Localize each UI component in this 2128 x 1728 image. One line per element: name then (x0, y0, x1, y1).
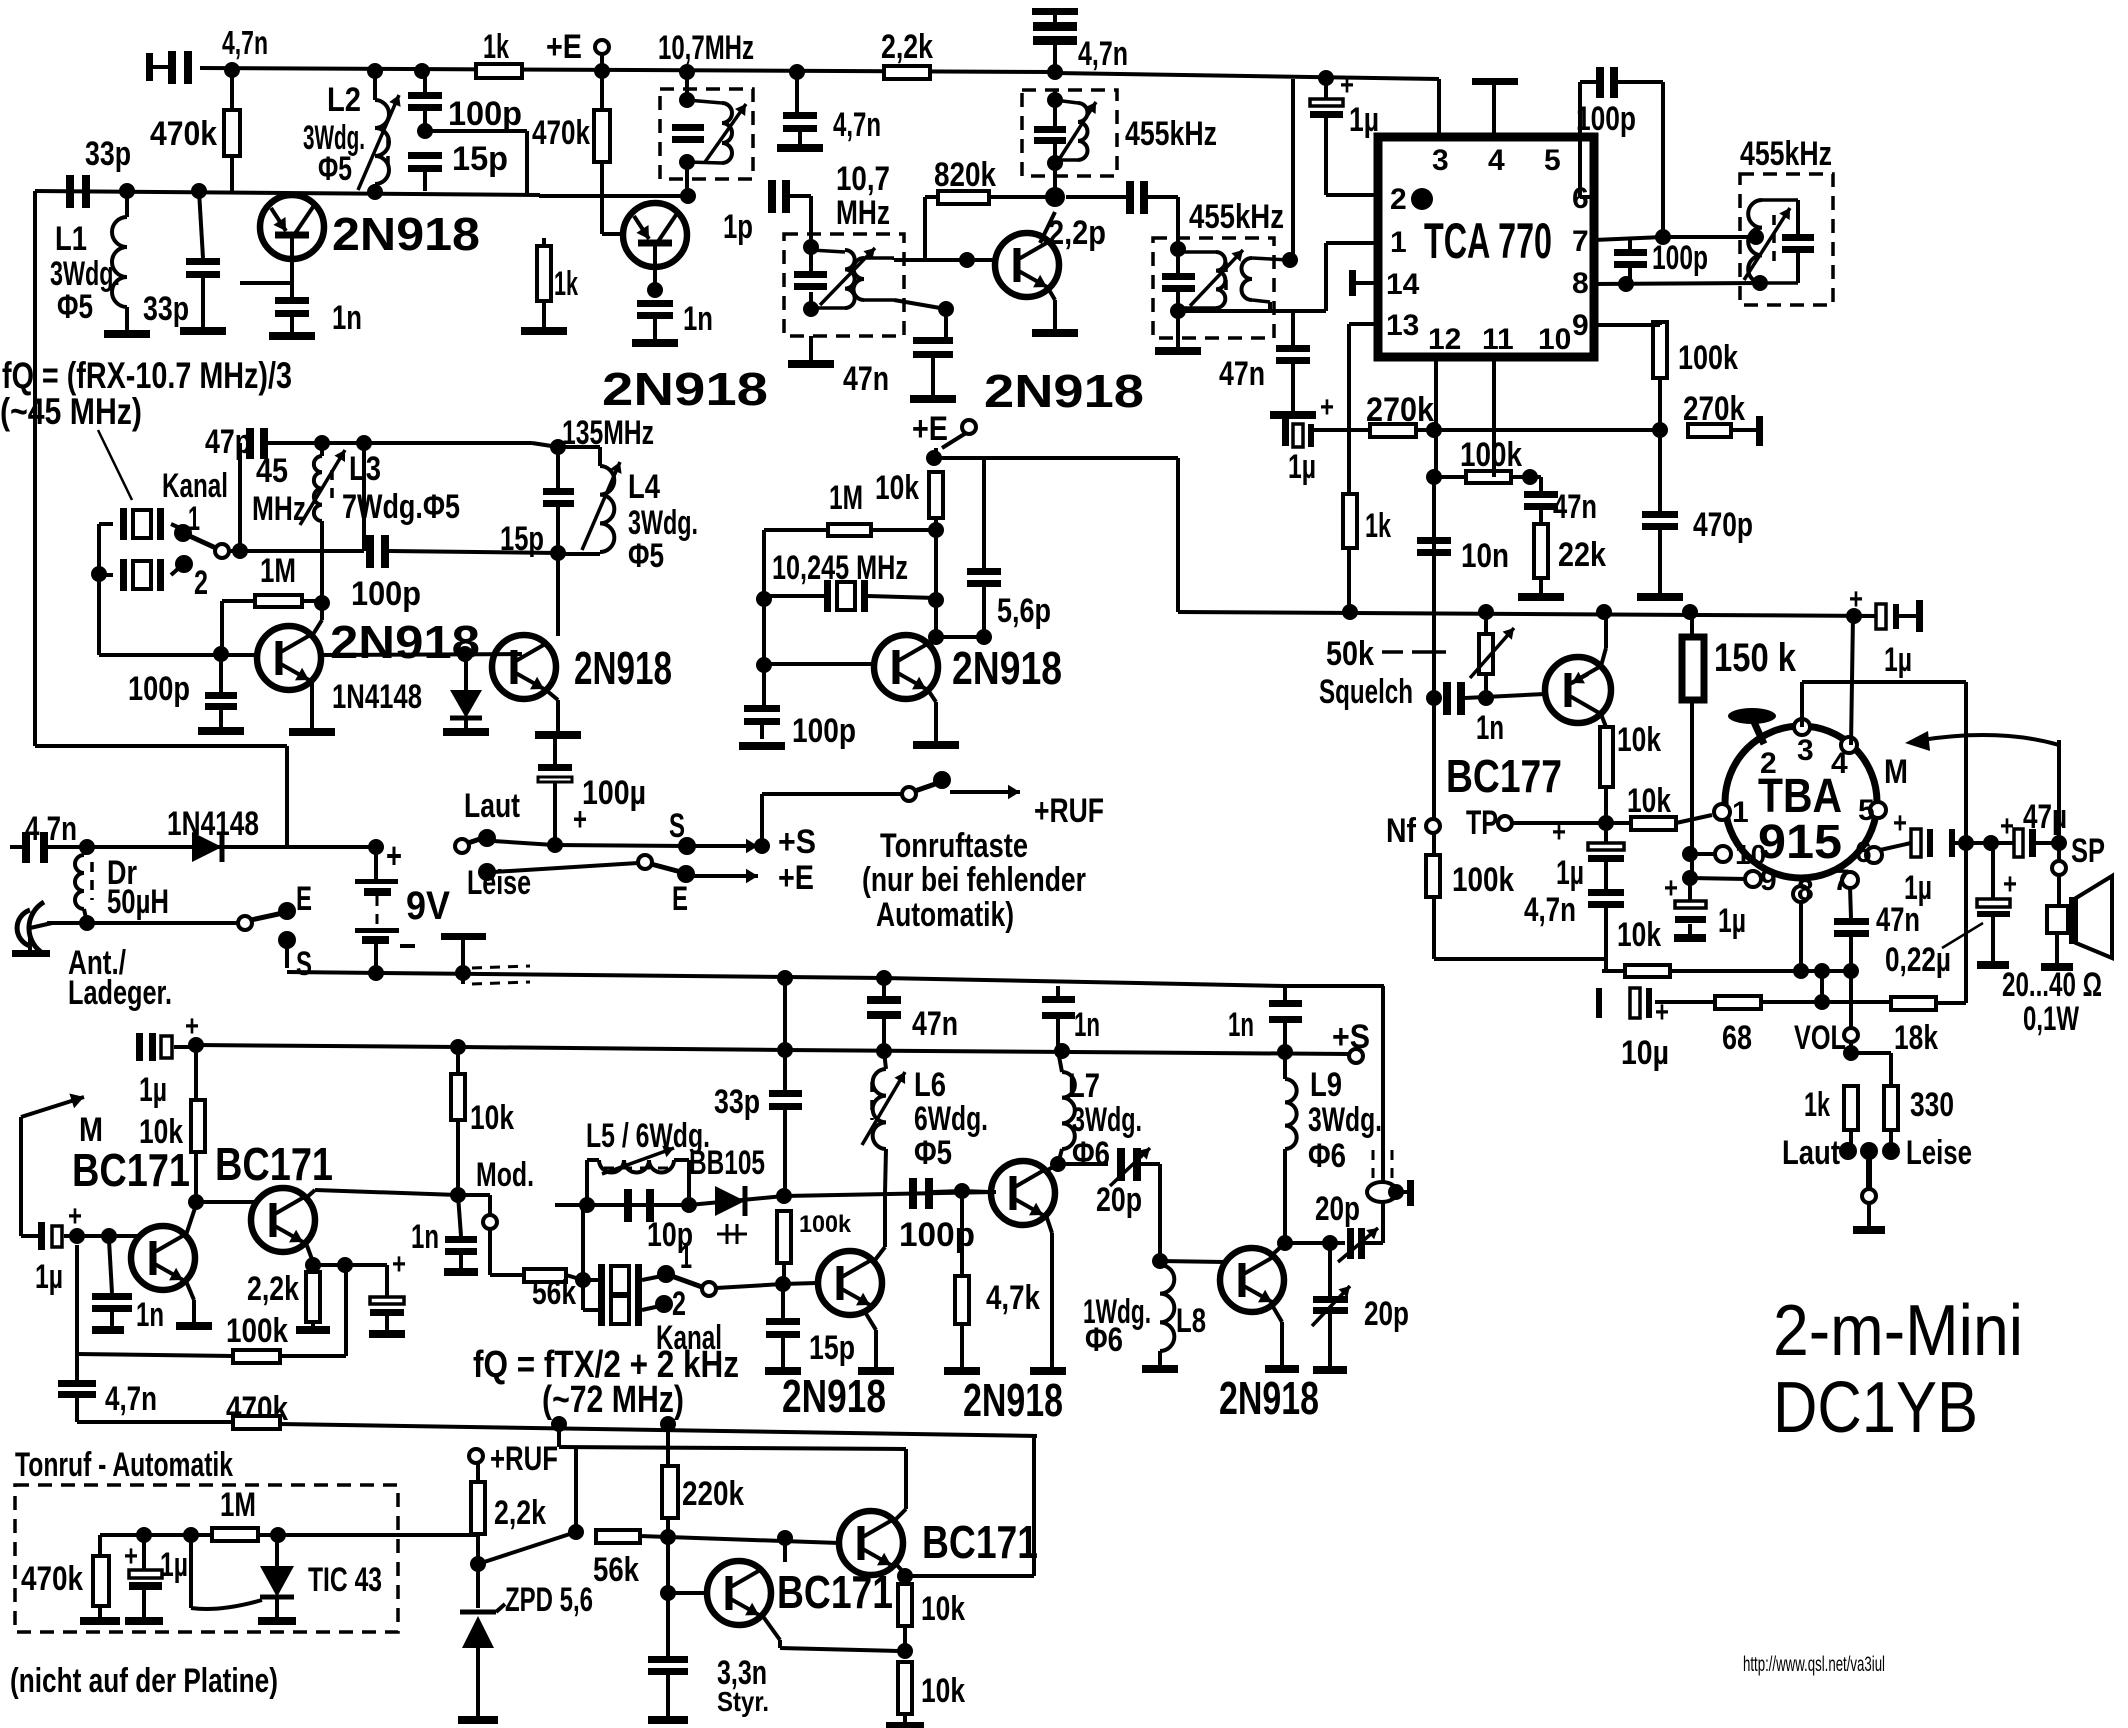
svg-text:+E: +E (778, 859, 814, 897)
svg-text:13: 13 (1386, 309, 1419, 342)
svg-text:0,1W: 0,1W (2023, 1000, 2080, 1038)
svg-text:Φ5: Φ5 (628, 537, 664, 575)
svg-text:1n: 1n (1074, 1006, 1100, 1044)
svg-text:fQ = (fRX-10.7 MHz)/3: fQ = (fRX-10.7 MHz)/3 (2, 355, 292, 396)
svg-text:(~45 MHz): (~45 MHz) (0, 391, 142, 432)
svg-text:20...40 Ω: 20...40 Ω (2002, 966, 2102, 1004)
svg-text:+E: +E (912, 410, 948, 448)
svg-text:1µ: 1µ (1556, 854, 1584, 892)
svg-text:9: 9 (1760, 864, 1777, 897)
svg-text:22k: 22k (1558, 536, 1606, 574)
svg-text:3Wdg.: 3Wdg. (1072, 1101, 1142, 1139)
svg-text:20p: 20p (1364, 1295, 1409, 1333)
svg-text:1n: 1n (1476, 709, 1504, 747)
svg-text:+: + (1893, 807, 1907, 840)
svg-text:100p: 100p (448, 95, 522, 133)
svg-text:TCA 770: TCA 770 (1424, 213, 1552, 269)
svg-text:2N918: 2N918 (1219, 1372, 1319, 1424)
svg-text:5: 5 (1858, 794, 1875, 827)
svg-text:47n: 47n (912, 1005, 958, 1043)
svg-text:5,6p: 5,6p (997, 592, 1051, 630)
svg-text:L1: L1 (55, 220, 87, 258)
svg-text:(nur bei fehlender: (nur bei fehlender (862, 861, 1086, 899)
svg-text:10k: 10k (875, 469, 919, 507)
svg-text:5: 5 (1544, 144, 1561, 177)
svg-text:150 k: 150 k (1714, 636, 1797, 680)
svg-text:20p: 20p (1315, 1190, 1360, 1228)
svg-text:2,2k: 2,2k (881, 28, 933, 66)
svg-text:http://www.qsl.net/va3iul: http://www.qsl.net/va3iul (1743, 1653, 1885, 1676)
svg-text:+S: +S (1332, 1018, 1370, 1056)
svg-text:Automatik): Automatik) (876, 896, 1014, 934)
svg-text:MHz: MHz (836, 194, 890, 232)
svg-text:3Wdg.: 3Wdg. (1308, 1101, 1382, 1139)
svg-text:6: 6 (1855, 836, 1872, 869)
svg-text:L4: L4 (628, 468, 660, 506)
svg-text:10: 10 (1538, 323, 1571, 356)
svg-text:1: 1 (1732, 796, 1749, 829)
svg-text:+: + (2003, 868, 2017, 901)
svg-text:1n: 1n (411, 1218, 439, 1256)
svg-text:Φ5: Φ5 (914, 1134, 952, 1172)
svg-text:TP: TP (1466, 804, 1498, 842)
svg-text:12: 12 (1428, 323, 1461, 356)
svg-text:1k: 1k (1804, 1086, 1830, 1124)
svg-text:2N918: 2N918 (332, 208, 480, 260)
svg-text:E: E (296, 880, 312, 918)
svg-text:45: 45 (256, 452, 288, 490)
svg-text:2N918: 2N918 (984, 365, 1144, 417)
svg-text:6Wdg.: 6Wdg. (914, 1100, 988, 1138)
svg-text:1µ: 1µ (35, 1258, 63, 1296)
svg-text:1N4148: 1N4148 (167, 805, 259, 843)
svg-text:(~72 MHz): (~72 MHz) (542, 1379, 684, 1421)
svg-text:1n: 1n (136, 1296, 164, 1334)
svg-text:33p: 33p (85, 135, 131, 173)
svg-text:+: + (1320, 391, 1334, 424)
svg-text:1µ: 1µ (160, 1546, 188, 1584)
svg-text:1M: 1M (829, 479, 863, 517)
svg-text:1p: 1p (723, 208, 753, 246)
svg-text:Laut: Laut (1782, 1134, 1840, 1172)
svg-text:2N918: 2N918 (963, 1374, 1063, 1426)
svg-text:4,7k: 4,7k (986, 1279, 1040, 1317)
svg-text:2,2k: 2,2k (247, 1270, 299, 1308)
svg-text:Φ6: Φ6 (1072, 1135, 1110, 1173)
svg-text:Φ6: Φ6 (1308, 1137, 1346, 1175)
svg-text:Styr.: Styr. (717, 1686, 769, 1717)
svg-text:4: 4 (1831, 747, 1848, 780)
svg-text:BC171: BC171 (215, 1138, 333, 1190)
svg-text:1k: 1k (483, 28, 509, 66)
svg-text:7Wdg.Φ5: 7Wdg.Φ5 (342, 488, 460, 526)
svg-text:+: + (1340, 69, 1354, 102)
svg-text:1µ: 1µ (139, 1071, 167, 1109)
svg-text:9: 9 (1572, 309, 1589, 342)
svg-text:10n: 10n (1461, 537, 1509, 575)
svg-text:33p: 33p (714, 1083, 760, 1121)
svg-text:Ladeger.: Ladeger. (68, 974, 172, 1012)
svg-text:BC171: BC171 (72, 1144, 190, 1196)
svg-text:100p: 100p (1576, 100, 1636, 138)
svg-text:+S: +S (778, 823, 816, 861)
svg-text:1M: 1M (260, 552, 296, 590)
svg-text:E: E (672, 880, 688, 918)
svg-text:33p: 33p (143, 290, 189, 328)
svg-text:1k: 1k (554, 265, 578, 303)
svg-text:15p: 15p (809, 1329, 855, 1367)
svg-text:1n: 1n (683, 300, 713, 338)
svg-text:455kHz: 455kHz (1125, 115, 1217, 153)
svg-text:L8: L8 (1176, 1302, 1206, 1340)
svg-text:4,7n: 4,7n (1524, 891, 1576, 929)
svg-text:10k: 10k (1617, 916, 1661, 954)
svg-text:1µ: 1µ (1718, 902, 1746, 940)
svg-text:100k: 100k (1452, 861, 1514, 899)
svg-text:Leise: Leise (1906, 1134, 1972, 1172)
svg-text:1: 1 (1390, 226, 1407, 259)
svg-text:50µH: 50µH (107, 883, 169, 921)
svg-text:MHz: MHz (252, 490, 306, 528)
svg-text:1n: 1n (1228, 1006, 1254, 1044)
svg-text:4: 4 (1488, 144, 1505, 177)
svg-text:2N918: 2N918 (330, 616, 480, 668)
svg-text:10µ: 10µ (1621, 1034, 1669, 1072)
svg-text:100k: 100k (799, 1211, 852, 1238)
svg-text:1n: 1n (332, 299, 362, 337)
svg-text:47n: 47n (843, 360, 889, 398)
svg-text:4,7n: 4,7n (1078, 35, 1128, 73)
svg-text:4,7n: 4,7n (222, 24, 268, 61)
svg-text:2,2p: 2,2p (1048, 214, 1106, 252)
svg-text:0,22µ: 0,22µ (1885, 941, 1951, 979)
svg-text:BB105: BB105 (689, 1144, 765, 1182)
svg-text:100p: 100p (351, 575, 421, 613)
svg-text:100p: 100p (792, 712, 856, 750)
svg-text:Nf: Nf (1386, 812, 1417, 850)
svg-text:20p: 20p (1096, 1181, 1142, 1219)
svg-text:100p: 100p (128, 670, 190, 708)
svg-text:+RUF: +RUF (1034, 792, 1104, 830)
svg-text:7: 7 (1572, 225, 1589, 258)
svg-text:100µ: 100µ (582, 774, 646, 812)
svg-text:TIC 43: TIC 43 (308, 1561, 382, 1599)
svg-text:470k: 470k (21, 1560, 83, 1598)
svg-text:Squelch: Squelch (1319, 673, 1413, 711)
svg-text:10,7MHz: 10,7MHz (658, 29, 754, 67)
svg-text:S: S (296, 945, 312, 983)
svg-text:Mod.: Mod. (476, 1156, 534, 1194)
svg-text:DC1YB: DC1YB (1773, 1368, 1978, 1448)
svg-text:2: 2 (1760, 747, 1777, 780)
svg-text:10,7: 10,7 (836, 160, 890, 198)
svg-text:1µ: 1µ (1288, 448, 1316, 486)
svg-text:1N4148: 1N4148 (332, 678, 422, 716)
svg-text:BC177: BC177 (1446, 750, 1562, 802)
svg-text:+: + (1655, 996, 1669, 1029)
svg-text:L6: L6 (914, 1066, 946, 1104)
svg-text:47n: 47n (1553, 488, 1597, 526)
svg-text:220k: 220k (682, 1475, 744, 1513)
svg-text:ZPD 5,6: ZPD 5,6 (505, 1581, 593, 1619)
svg-text:68: 68 (1722, 1019, 1752, 1057)
svg-text:4,7n: 4,7n (25, 810, 77, 848)
svg-text:+: + (2000, 810, 2014, 843)
svg-text:L3: L3 (349, 450, 381, 488)
svg-text:1k: 1k (1365, 507, 1391, 545)
svg-text:+: + (386, 835, 402, 876)
svg-text:Φ5: Φ5 (57, 288, 93, 326)
svg-text:1M: 1M (220, 1486, 256, 1524)
svg-text:2-m-Mini: 2-m-Mini (1773, 1291, 2023, 1371)
svg-text:47p: 47p (205, 423, 251, 461)
svg-text:56k: 56k (532, 1274, 576, 1312)
svg-text:1µ: 1µ (1884, 641, 1912, 679)
svg-text:Tonruftaste: Tonruftaste (880, 827, 1028, 865)
svg-text:2: 2 (194, 564, 208, 602)
svg-text:10k: 10k (1627, 782, 1671, 820)
svg-text:10k: 10k (921, 1672, 965, 1710)
svg-text:(nicht auf der Platine): (nicht auf der Platine) (10, 1662, 278, 1700)
svg-text:100p: 100p (1652, 239, 1708, 277)
svg-text:7: 7 (1833, 864, 1850, 897)
svg-text:470k: 470k (150, 115, 217, 153)
svg-text:18k: 18k (1894, 1019, 1938, 1057)
svg-text:8: 8 (1572, 267, 1589, 300)
svg-text:4,7n: 4,7n (833, 106, 881, 144)
svg-text:+: + (1552, 816, 1566, 849)
svg-text:SP: SP (2071, 832, 2105, 870)
svg-text:15p: 15p (452, 140, 508, 178)
svg-text:56k: 56k (593, 1551, 639, 1589)
svg-text:VOL: VOL (1794, 1019, 1846, 1057)
svg-text:455kHz: 455kHz (1740, 135, 1832, 173)
svg-text:+: + (392, 1248, 406, 1281)
svg-text:1: 1 (680, 1238, 692, 1276)
svg-text:100k: 100k (1678, 339, 1738, 377)
svg-text:915: 915 (1758, 816, 1842, 869)
svg-text:15p: 15p (500, 520, 544, 558)
svg-text:820k: 820k (934, 156, 996, 194)
svg-text:2N918: 2N918 (602, 363, 768, 415)
svg-text:3: 3 (1432, 144, 1449, 177)
svg-text:10k: 10k (921, 1590, 965, 1628)
svg-text:M: M (1884, 753, 1908, 791)
svg-text:4,7n: 4,7n (105, 1380, 157, 1418)
svg-text:100k: 100k (226, 1312, 288, 1350)
svg-text:Tonruf - Automatik: Tonruf - Automatik (15, 1446, 233, 1484)
svg-text:2: 2 (1390, 183, 1407, 216)
svg-text:10k: 10k (470, 1099, 514, 1137)
svg-text:2: 2 (672, 1285, 686, 1323)
svg-text:Φ5: Φ5 (318, 150, 352, 188)
svg-text:10k: 10k (1617, 721, 1661, 759)
svg-text:+RUF: +RUF (490, 1440, 558, 1478)
svg-text:9V: 9V (406, 884, 450, 928)
svg-text:L9: L9 (1310, 1066, 1342, 1104)
svg-text:2N918: 2N918 (952, 642, 1062, 694)
svg-text:+: + (1849, 583, 1863, 616)
svg-text:100k: 100k (1460, 436, 1522, 474)
svg-text:+: + (124, 1540, 138, 1573)
svg-text:L2: L2 (327, 81, 361, 119)
svg-text:2N918: 2N918 (574, 642, 672, 694)
svg-text:Φ6: Φ6 (1085, 1321, 1123, 1359)
svg-text:50k: 50k (1326, 635, 1374, 673)
svg-text:BC171: BC171 (922, 1516, 1038, 1568)
svg-text:470k: 470k (532, 114, 590, 152)
svg-text:1µ: 1µ (1904, 869, 1932, 907)
svg-text:+: + (68, 1200, 82, 1233)
svg-text:14: 14 (1386, 268, 1420, 301)
svg-text:2N918: 2N918 (782, 1370, 886, 1422)
svg-text:330: 330 (1910, 1086, 1954, 1124)
svg-text:11: 11 (1482, 323, 1514, 356)
svg-text:3: 3 (1797, 734, 1814, 767)
svg-text:10k: 10k (139, 1113, 183, 1151)
svg-text:+E: +E (546, 28, 582, 66)
svg-text:470p: 470p (1693, 506, 1753, 544)
svg-text:47n: 47n (1219, 355, 1265, 393)
svg-text:Laut: Laut (464, 787, 520, 825)
svg-text:L7: L7 (1068, 1067, 1100, 1105)
svg-text:455kHz: 455kHz (1189, 198, 1284, 236)
svg-text:2,2k: 2,2k (494, 1494, 546, 1532)
